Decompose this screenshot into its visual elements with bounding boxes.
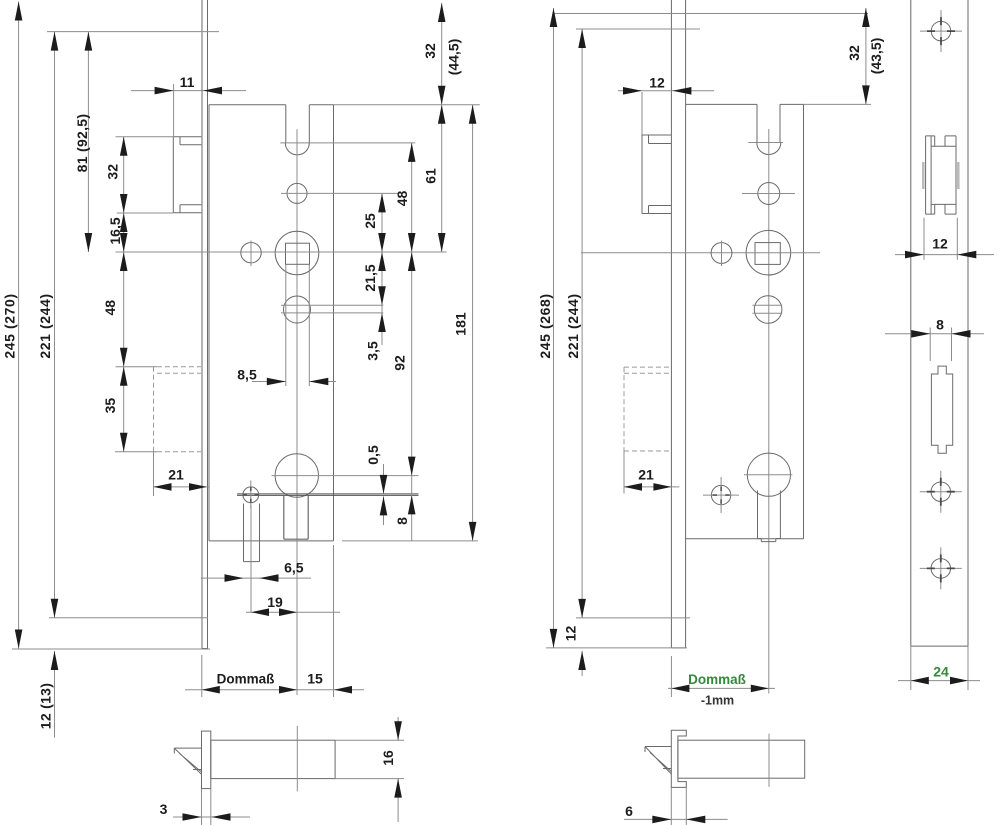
dim right 12 <box>895 218 994 260</box>
dim middle 245 (268) <box>553 8 555 648</box>
svg-text:221 (244): 221 (244) <box>37 293 53 358</box>
middle side hook box <box>642 135 671 214</box>
svg-text:3: 3 <box>160 801 168 817</box>
middle lock case outline <box>686 104 804 538</box>
left latch head arc <box>285 143 309 155</box>
middle extension Dommass <box>670 656 672 697</box>
dim middle 21 <box>624 486 679 488</box>
left section case body <box>211 740 335 778</box>
middle lower oval hole <box>754 296 782 324</box>
middle profile cylinder hole <box>747 453 790 496</box>
svg-text:(43,5): (43,5) <box>868 38 884 75</box>
svg-text:15: 15 <box>307 670 323 686</box>
left upper hole <box>287 183 307 203</box>
dim 3 line <box>173 789 250 825</box>
extension line case bottom right <box>342 540 478 542</box>
left section latch bevel <box>174 748 201 774</box>
svg-text:24: 24 <box>933 663 949 679</box>
left upper hole centre line <box>281 192 398 194</box>
svg-text:19: 19 <box>267 594 283 610</box>
svg-text:61: 61 <box>422 168 438 184</box>
middle section centre line <box>768 734 770 787</box>
extension line for 11 dim <box>173 84 175 137</box>
right strip latch side lugs <box>923 162 958 189</box>
extension line plate bottom left for Dommass <box>201 655 203 697</box>
svg-text:8: 8 <box>394 517 410 525</box>
middle extension plate bottom line <box>546 647 687 649</box>
extension line hook bottom <box>117 212 174 214</box>
middle latch head arc <box>757 143 781 155</box>
svg-text:12: 12 <box>563 626 579 642</box>
extension line pocket top <box>116 366 157 368</box>
dim 6,5 line <box>201 577 311 579</box>
left vertical centre line <box>296 129 298 695</box>
middle upper hole <box>758 183 780 205</box>
dim 32 (44,5) and 61 line <box>441 3 443 252</box>
dim 0,5 line <box>383 464 385 525</box>
right strip screw hole bottom <box>931 559 951 579</box>
svg-text:92: 92 <box>391 355 407 371</box>
svg-text:221 (244): 221 (244) <box>565 293 581 358</box>
dim Dommass line <box>185 689 364 691</box>
left lower oval hole <box>284 296 311 323</box>
left deadbolt circle <box>275 454 318 497</box>
left lower hole chord lines <box>281 305 383 313</box>
svg-text:3,5: 3,5 <box>364 341 380 361</box>
middle spindle follower <box>746 230 791 275</box>
svg-text:21: 21 <box>168 466 184 482</box>
dim 221 (244) line <box>54 32 56 618</box>
dim chain 32 / 16,5 / 48 / 35 line <box>123 137 125 452</box>
middle fixing hole beside spindle <box>711 243 732 264</box>
left cylinder screw hole <box>243 487 259 503</box>
svg-text:21,5: 21,5 <box>362 264 378 291</box>
dim 181 line <box>472 105 474 541</box>
dim 81 (92,5) line <box>87 32 89 252</box>
middle vertical centre line <box>768 129 770 694</box>
middle section latch bevel <box>645 747 671 774</box>
dim right 8 <box>885 328 984 362</box>
svg-text:32: 32 <box>105 164 121 180</box>
svg-text:81 (92,5): 81 (92,5) <box>74 114 90 173</box>
svg-text:32: 32 <box>846 45 862 61</box>
dim right 24 <box>898 646 980 690</box>
svg-text:-1mm: -1mm <box>701 693 734 707</box>
dim 6 line <box>624 787 728 825</box>
middle latch notch <box>757 104 780 142</box>
middle extension case top right <box>804 103 872 105</box>
svg-text:245 (270): 245 (270) <box>2 293 18 358</box>
left horizontal centre line <box>116 251 447 253</box>
left section faceplate bar <box>202 731 211 789</box>
svg-text:48: 48 <box>102 300 118 316</box>
right strip screw hole middle <box>931 482 951 502</box>
svg-text:32: 32 <box>422 43 438 59</box>
middle section U-profile plate <box>671 730 686 787</box>
svg-text:Dommaß: Dommaß <box>217 672 275 687</box>
middle extension top line <box>553 13 868 15</box>
middle hidden pocket dashed <box>624 367 671 451</box>
extension line top 221/81 <box>47 31 219 33</box>
extension top edge right <box>334 104 480 106</box>
left hidden pocket (dashed) <box>154 367 202 452</box>
dim 11 line <box>131 90 246 92</box>
left screw slot <box>244 504 260 562</box>
svg-text:245 (268): 245 (268) <box>537 293 553 358</box>
middle cylinder screw hole target <box>711 485 730 504</box>
left spindle follower circle <box>275 231 319 275</box>
dim middle Dommass -1mm <box>668 687 775 689</box>
svg-text:11: 11 <box>180 74 195 90</box>
svg-text:48: 48 <box>394 191 410 207</box>
dim 12 (13) line <box>54 651 56 738</box>
left deadbolt centre line <box>272 475 419 477</box>
middle horizontal centre line <box>581 252 820 254</box>
middle latch head line <box>748 142 783 144</box>
extension line pocket bottom <box>115 451 157 453</box>
svg-text:8,5: 8,5 <box>237 366 257 382</box>
svg-text:25: 25 <box>362 213 378 229</box>
extension line pocket left lower <box>153 452 155 496</box>
svg-text:8: 8 <box>936 316 944 332</box>
right strip screw hole top <box>931 21 951 40</box>
left deadbolt stem <box>284 495 308 539</box>
middle extension 221 line <box>576 28 700 30</box>
dim middle 32 (43,5) <box>865 8 867 104</box>
svg-text:12 (13): 12 (13) <box>38 683 54 729</box>
dim 8,5 line <box>252 381 336 383</box>
middle section case body <box>678 740 805 778</box>
middle faceplate U-profile front <box>671 0 685 648</box>
left deadbolt bottom double line <box>237 494 419 496</box>
extension line case back for 15 <box>333 545 335 697</box>
middle cylinder neck <box>758 491 781 542</box>
svg-text:0,5: 0,5 <box>365 445 381 465</box>
dim 19 line <box>246 611 340 613</box>
right strip cylinder slot <box>931 366 952 453</box>
right strip latch window <box>926 136 956 214</box>
left lock case outline <box>209 105 334 541</box>
dim 16 line <box>335 717 404 822</box>
left side hook box <box>173 137 201 213</box>
dim 245 (270) line <box>18 2 20 649</box>
extension line plate bottom <box>12 648 210 650</box>
dim middle 12 top <box>618 90 714 92</box>
svg-text:181: 181 <box>452 312 468 336</box>
svg-text:35: 35 <box>102 398 118 414</box>
middle extension case bottom line <box>576 617 690 619</box>
svg-text:(44,5): (44,5) <box>445 39 461 76</box>
svg-text:12: 12 <box>649 74 665 90</box>
left spindle square extension lines <box>286 264 310 386</box>
left fixing hole beside spindle <box>241 243 261 263</box>
extension line hook top <box>116 136 174 138</box>
dim 21 line <box>154 486 210 488</box>
left screw slot centre line <box>250 505 252 612</box>
middle pocket extension line <box>623 451 625 494</box>
left lock faceplate (front strip) <box>202 0 208 649</box>
svg-text:12: 12 <box>932 235 948 251</box>
left section centre line <box>296 726 298 791</box>
dim middle 12 bottom <box>581 651 583 676</box>
extension line case bottom left <box>49 617 208 619</box>
dim middle 221 (244) <box>581 29 583 618</box>
right faceplate strip <box>911 0 968 646</box>
svg-text:6,5: 6,5 <box>284 559 304 575</box>
dim column 25 / 21,5 / 3,5 line <box>381 193 383 345</box>
left latch head line <box>280 142 415 144</box>
dim column 48 / 92 / 8 line <box>411 143 413 541</box>
svg-text:16,5: 16,5 <box>107 217 123 244</box>
svg-text:21: 21 <box>638 466 654 482</box>
middle extension 12 dim <box>641 92 643 135</box>
left latch notch <box>286 105 310 143</box>
svg-text:6: 6 <box>625 803 633 819</box>
left spindle square nut <box>286 243 310 264</box>
svg-text:Dommaß: Dommaß <box>688 672 746 687</box>
svg-text:16: 16 <box>380 750 396 766</box>
